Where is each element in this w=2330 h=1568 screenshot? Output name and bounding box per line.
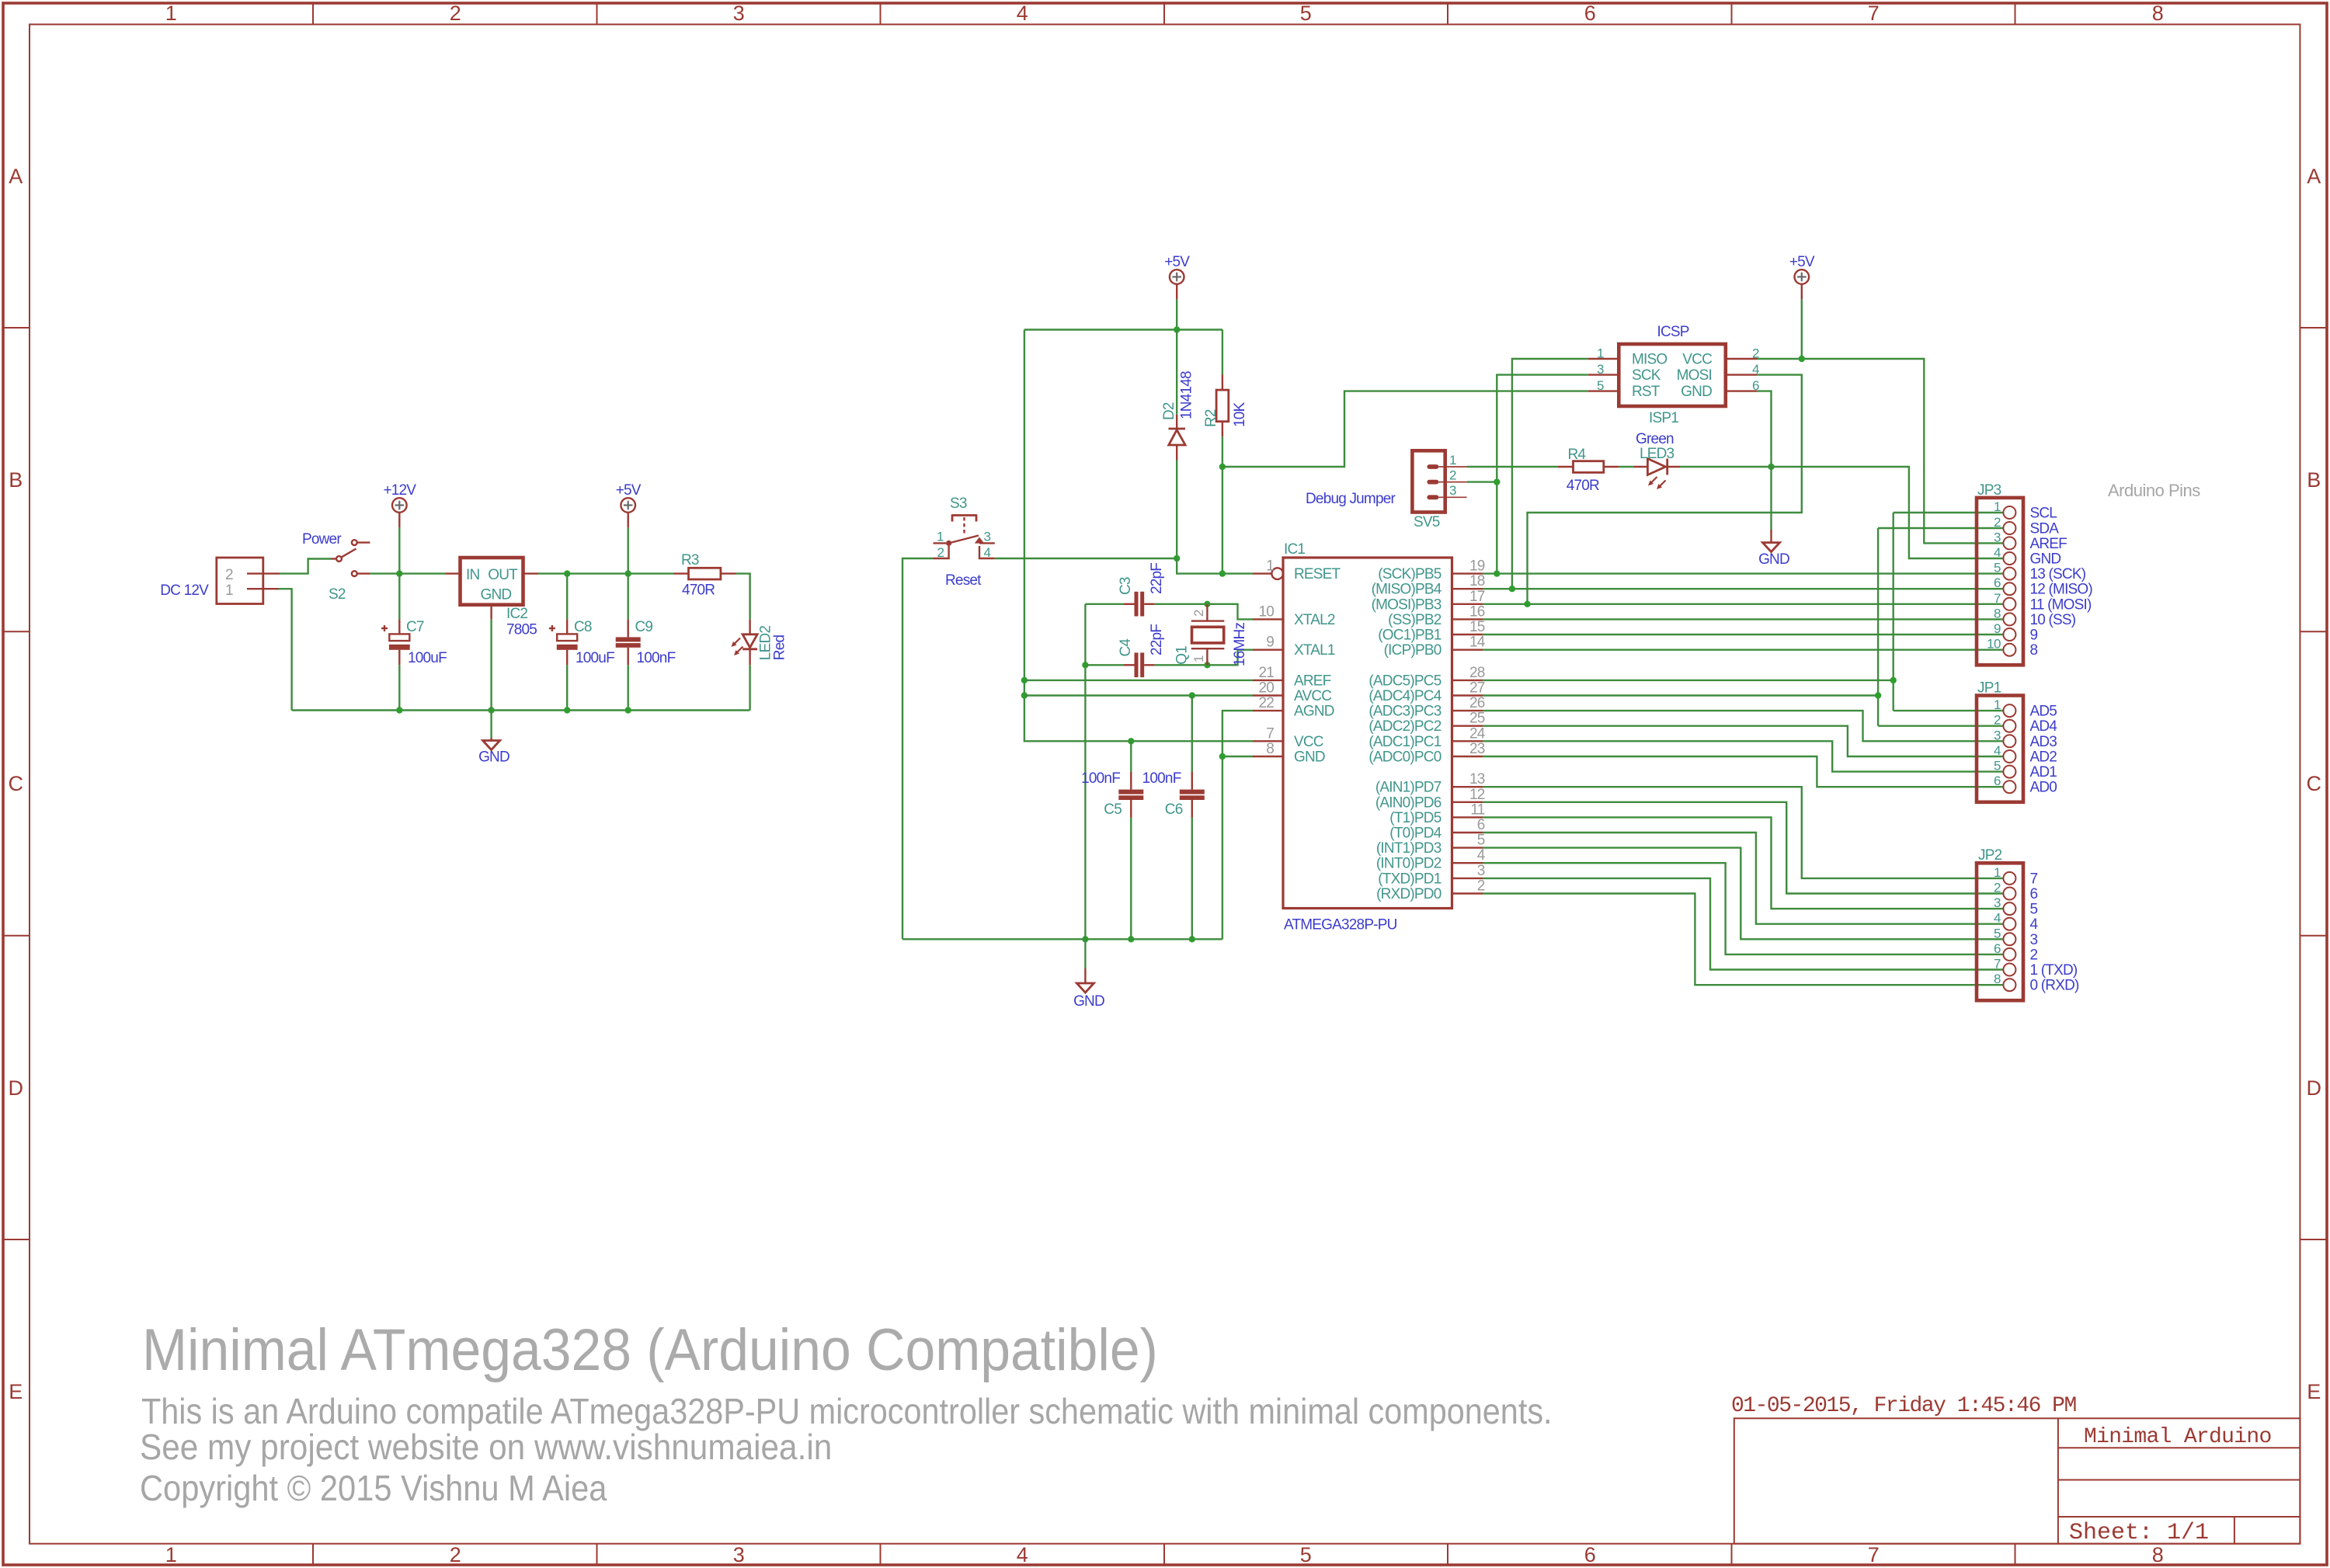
svg-text:22pF: 22pF (1149, 624, 1165, 655)
wire R2 bottom vertical (1222, 436, 1223, 573)
svg-text:(INT0)PD2: (INT0)PD2 (1376, 856, 1441, 872)
svg-text:10: 10 (1258, 603, 1274, 620)
header ISP1 (ICSP) (1588, 324, 1759, 426)
junction +5V/D2 (1174, 326, 1180, 332)
svg-text:JP3: JP3 (1977, 482, 2001, 499)
resistor R4 (1558, 447, 1619, 494)
svg-text:5: 5 (1994, 926, 2001, 940)
svg-text:E: E (2307, 1380, 2321, 1403)
IC1 (1253, 541, 1486, 933)
capacitor C3 (1118, 563, 1165, 617)
capacitor C4 (1118, 624, 1165, 677)
wire +5V stub (628, 527, 629, 573)
wire SV5 pin1 to R4 (1467, 466, 1558, 468)
svg-text:ISP1: ISP1 (1649, 410, 1678, 426)
junction PB4/MISO (1509, 586, 1515, 592)
wire PB4 net (pin18 to JP3-6) (1483, 588, 2003, 589)
svg-text:(ADC3)PC3: (ADC3)PC3 (1368, 704, 1441, 720)
svg-text:(RXD)PD0: (RXD)PD0 (1376, 886, 1441, 902)
svg-text:GND: GND (1681, 384, 1712, 400)
svg-text:GND: GND (481, 587, 512, 603)
svg-text:3: 3 (2030, 932, 2038, 948)
svg-text:C3: C3 (1118, 577, 1134, 595)
svg-text:Q1: Q1 (1174, 646, 1191, 665)
svg-text:2: 2 (1994, 515, 2001, 530)
junction rail C6 (1189, 936, 1195, 942)
svg-text:B: B (9, 468, 23, 492)
svg-text:LED3: LED3 (1640, 446, 1674, 462)
svg-text:100uF: 100uF (408, 650, 447, 666)
wire PC4 net (pin27 to JP3-2/JP1-2) (1483, 694, 1878, 696)
svg-text:22pF: 22pF (1149, 563, 1165, 594)
svg-text:7: 7 (1994, 957, 2001, 972)
svg-text:AD5: AD5 (2030, 704, 2057, 720)
svg-text:D2: D2 (1161, 402, 1177, 420)
svg-text:C4: C4 (1118, 638, 1134, 657)
svg-text:20: 20 (1258, 680, 1274, 697)
svg-text:(ADC0)PC0: (ADC0)PC0 (1368, 749, 1441, 766)
svg-text:2: 2 (1449, 468, 1456, 483)
svg-text:C: C (2307, 772, 2321, 795)
svg-text:10 (SS): 10 (SS) (2030, 612, 2076, 628)
svg-text:2: 2 (1994, 881, 2001, 895)
wire PD0 net (pin2 to JP2-8) (1483, 894, 2003, 986)
supply +5V (ICSP) (1789, 254, 1815, 299)
wire IC2 GND down (490, 619, 492, 710)
svg-text:(ADC2)PC2: (ADC2)PC2 (1368, 718, 1441, 735)
svg-text:S2: S2 (329, 586, 346, 603)
wire S2 pivot stub (331, 558, 336, 559)
wire S2 to IC2 IN (370, 572, 445, 574)
svg-text:This is an Arduino compatile A: This is an Arduino compatile ATmega328P-… (141, 1392, 1553, 1432)
svg-text:10K: 10K (1232, 402, 1248, 427)
junction R2/RST (1219, 464, 1226, 470)
svg-text:470R: 470R (1567, 478, 1599, 494)
TEXTS (140, 1317, 1553, 1508)
junction C5/VCC (1128, 738, 1134, 744)
svg-text:16MHz: 16MHz (1232, 623, 1248, 666)
wire PC3 net (pin26 to JP1-3) (1483, 711, 2003, 741)
svg-text:(MOSI)PB3: (MOSI)PB3 (1372, 596, 1441, 613)
wire crystal top jog to XTAL2 (1207, 604, 1253, 620)
svg-text:6: 6 (1584, 1543, 1596, 1566)
svg-text:Green: Green (1636, 431, 1674, 447)
ICSP (1306, 254, 2003, 604)
wire PC5 net (pin28 to JP3-1/JP1-1) (1483, 680, 1894, 681)
wire C8 bottom (566, 665, 568, 710)
svg-text:4: 4 (1994, 545, 2001, 560)
svg-text:27: 27 (1469, 680, 1485, 697)
header JP3 (1977, 482, 2092, 665)
svg-text:6: 6 (1584, 2, 1596, 25)
wire SV5 pin2 to SCK (1467, 481, 1497, 482)
svg-text:2: 2 (1477, 878, 1485, 895)
svg-text:5: 5 (1994, 561, 2001, 575)
svg-text:3: 3 (1449, 483, 1456, 498)
left pin names (1294, 566, 1341, 765)
svg-text:1: 1 (1994, 865, 2001, 880)
svg-text:3: 3 (1994, 530, 2001, 544)
wire C9 top (628, 574, 629, 620)
wire +5V long vertical to VCC (1024, 330, 1131, 742)
wire C3 left (1085, 603, 1124, 605)
svg-text:1: 1 (165, 1543, 177, 1566)
svg-text:14: 14 (1469, 635, 1486, 651)
svg-text:9: 9 (2030, 628, 2038, 644)
svg-text:Minimal Arduino: Minimal Arduino (2084, 1425, 2272, 1449)
wire PD6 net (pin12 to JP2-2) (1483, 802, 2003, 894)
svg-text:8: 8 (1266, 741, 1274, 757)
svg-text:Power: Power (302, 531, 342, 548)
svg-text:2: 2 (225, 567, 233, 583)
svg-text:470R: 470R (682, 582, 715, 599)
HEADERS (1483, 481, 2200, 1000)
ground GND (power) (478, 738, 509, 766)
svg-text:R2: R2 (1203, 409, 1219, 427)
wire PD7 net (pin13 to JP2-1) (1483, 787, 2003, 878)
svg-text:E: E (9, 1380, 23, 1403)
svg-text:1: 1 (1994, 499, 2001, 514)
svg-text:GND: GND (1758, 551, 1789, 568)
wire PB2 net (pin16 to JP3-8) (1483, 618, 2003, 620)
svg-text:5: 5 (1994, 759, 2001, 774)
wire DC12V pin2 to S2 pivot (280, 559, 331, 574)
svg-text:1: 1 (1191, 655, 1206, 662)
svg-text:2: 2 (450, 1543, 461, 1566)
LED LED3 Green (1634, 431, 1680, 489)
wire LED2 to rail (749, 665, 750, 710)
right pin stubs (1452, 572, 1483, 574)
svg-text:ICSP: ICSP (1657, 324, 1689, 340)
wire R2 top (1222, 330, 1223, 375)
svg-text:(T1)PD5: (T1)PD5 (1389, 810, 1441, 826)
svg-text:(ICP)PB0: (ICP)PB0 (1384, 642, 1441, 659)
svg-text:4: 4 (984, 545, 991, 560)
svg-text:3: 3 (1994, 728, 2001, 742)
capacitor C9 (616, 619, 676, 666)
regulator IC2 7805 (445, 558, 538, 638)
svg-text:+5V: +5V (1164, 254, 1190, 270)
svg-text:5: 5 (2030, 902, 2038, 918)
junction PC4 (1875, 692, 1881, 698)
svg-text:1: 1 (937, 530, 944, 544)
junction crystal pin1 (1204, 662, 1210, 668)
microcontroller IC1 ATMEGA328P-PU (1253, 541, 1486, 933)
svg-text:XTAL2: XTAL2 (1294, 612, 1335, 628)
wire S3 pin4 to D2 (995, 558, 1177, 559)
wire VCC row to IC pin7 (1131, 740, 1253, 742)
svg-text:3: 3 (1994, 895, 2001, 910)
svg-text:MOSI: MOSI (1677, 367, 1712, 384)
ground GND (ICSP) (1758, 530, 1789, 568)
capacitor C8 (549, 619, 614, 666)
wire ISP pin4 MOSI down (1528, 375, 1802, 604)
wire GND symbol stub (1770, 467, 1772, 530)
svg-text:GND: GND (478, 749, 509, 766)
wire PC0 net (pin23 to JP1-6) (1483, 756, 2003, 787)
svg-text:(TXD)PD1: (TXD)PD1 (1378, 871, 1441, 887)
LED LED2 Red (732, 619, 788, 665)
right pin names (1368, 566, 1441, 902)
wire C6 bottom (1191, 818, 1193, 939)
svg-text:100nF: 100nF (1142, 770, 1181, 787)
svg-text:RST: RST (1632, 384, 1661, 400)
wire C7 bottom (398, 665, 400, 710)
svg-text:7805: 7805 (506, 622, 537, 638)
svg-text:AGND: AGND (1294, 704, 1334, 720)
svg-text:JP1: JP1 (1977, 680, 2001, 697)
junction RESET/R2 (1219, 570, 1226, 576)
svg-text:(OC1)PB1: (OC1)PB1 (1378, 628, 1441, 644)
header JP2 (1977, 847, 2079, 1000)
svg-text:26: 26 (1469, 695, 1485, 711)
wire C8 top (566, 574, 568, 620)
svg-text:7: 7 (1994, 591, 2001, 606)
wire C3 right to crystal (1155, 603, 1208, 605)
wire PB3 net (pin17 to JP3-7) (1483, 603, 2003, 605)
svg-text:AD0: AD0 (2030, 780, 2057, 796)
svg-text:ATMEGA328P-PU: ATMEGA328P-PU (1284, 917, 1397, 933)
svg-text:1: 1 (1597, 346, 1604, 361)
svg-text:9: 9 (1266, 635, 1274, 651)
svg-text:AD1: AD1 (2030, 764, 2057, 781)
wire OUT to R3 (+5V rail) (538, 572, 674, 574)
junction crystal pin2 (1204, 601, 1210, 607)
wire S3 pin2 to ground (902, 558, 934, 939)
wire C9 bottom (628, 665, 629, 710)
svg-text:D: D (9, 1076, 23, 1100)
svg-text:8: 8 (1994, 972, 2001, 986)
wire C5 bottom (1130, 818, 1132, 939)
wire R3 to LED2 (736, 574, 750, 620)
svg-text:25: 25 (1469, 711, 1485, 727)
svg-text:17: 17 (1469, 589, 1485, 605)
svg-text:AREF: AREF (2030, 536, 2067, 552)
svg-text:5: 5 (1477, 833, 1485, 849)
capacitor C6 (1142, 770, 1205, 818)
supply +12V (383, 482, 416, 527)
svg-text:8: 8 (1994, 606, 2001, 621)
svg-text:IN: IN (466, 567, 479, 583)
svg-text:DC 12V: DC 12V (160, 582, 209, 599)
svg-text:S3: S3 (950, 495, 967, 512)
svg-text:RESET: RESET (1294, 566, 1341, 582)
svg-text:7: 7 (1266, 725, 1274, 742)
junction C9/+5V (625, 570, 631, 576)
svg-text:22: 22 (1258, 695, 1274, 711)
svg-text:1: 1 (1266, 558, 1274, 575)
wire C4 right to crystal (1155, 664, 1208, 666)
switch S3 (934, 495, 995, 589)
junction PB3/MOSI (1524, 601, 1530, 607)
svg-text:5: 5 (1300, 1543, 1312, 1566)
wire LED3 to GND junction (1680, 466, 1772, 468)
svg-text:2: 2 (1994, 713, 2001, 728)
XTAL (1081, 563, 1253, 940)
switch S2 (302, 531, 370, 603)
supply +5V (power) (616, 482, 642, 527)
svg-text:(T0)PD4: (T0)PD4 (1389, 826, 1441, 842)
svg-text:6: 6 (1477, 817, 1485, 833)
svg-text:GND: GND (1073, 993, 1104, 1010)
svg-text:AD2: AD2 (2030, 749, 2057, 766)
svg-text:11: 11 (1470, 801, 1484, 818)
svg-text:A: A (9, 165, 23, 188)
junction AVCC tap (1021, 692, 1028, 698)
svg-text:24: 24 (1469, 725, 1486, 742)
svg-text:C: C (9, 772, 23, 795)
svg-text:8: 8 (2152, 2, 2164, 25)
svg-text:6: 6 (2030, 886, 2038, 902)
svg-text:1: 1 (1449, 453, 1456, 468)
svg-text:C7: C7 (406, 619, 424, 635)
svg-text:4: 4 (2030, 916, 2039, 933)
wire GND to JP3 pin4 (1772, 467, 2004, 558)
svg-text:C8: C8 (574, 619, 592, 635)
svg-text:7: 7 (2030, 871, 2038, 887)
wire +5V top horizontal (1024, 329, 1222, 330)
svg-text:R3: R3 (681, 552, 699, 568)
POWER (160, 482, 788, 766)
wire mid ground rail (902, 938, 1222, 940)
svg-text:18: 18 (1469, 573, 1485, 589)
svg-text:2: 2 (1191, 610, 1206, 617)
svg-text:AD4: AD4 (2030, 718, 2058, 735)
svg-text:SCK: SCK (1632, 367, 1661, 384)
resistor R3 (674, 552, 736, 599)
svg-text:IC1: IC1 (1284, 541, 1305, 558)
svg-text:Debug Jumper: Debug Jumper (1306, 491, 1396, 507)
junction PB5/SCK (1494, 570, 1500, 576)
svg-text:D: D (2307, 1076, 2321, 1100)
junction rail IC2 (488, 707, 494, 713)
junction SV5/SCK (1494, 478, 1500, 485)
svg-text:100uF: 100uF (576, 650, 614, 666)
junction rail C5 (1128, 936, 1134, 942)
junction rail C7 (396, 707, 402, 713)
wire ISP pin6 GND down (1757, 391, 1772, 467)
svg-text:1: 1 (225, 582, 233, 599)
svg-text:21: 21 (1258, 665, 1274, 681)
junction AGND/GND8 (1219, 753, 1226, 760)
svg-text:6: 6 (1994, 774, 2001, 788)
svg-text:2: 2 (2030, 947, 2038, 963)
svg-text:SV5: SV5 (1414, 514, 1440, 530)
svg-text:16: 16 (1469, 603, 1485, 620)
svg-text:(AIN1)PD7: (AIN1)PD7 (1375, 780, 1441, 796)
diode D2 1N4148 (1161, 371, 1195, 460)
svg-text:3: 3 (1477, 863, 1485, 879)
svg-text:Red: Red (772, 635, 788, 661)
svg-text:AREF: AREF (1294, 673, 1331, 689)
wire DC12V pin1 return (278, 589, 291, 710)
wire PD4 net (pin6 to JP2-4) (1483, 833, 2003, 924)
wire IC GND pin8 (1222, 756, 1253, 757)
wire RST to ISP pin5 (1222, 391, 1588, 467)
svg-text:GND: GND (2030, 551, 2061, 568)
svg-text:(ADC5)PC5: (ADC5)PC5 (1368, 673, 1441, 689)
svg-text:28: 28 (1469, 665, 1485, 681)
svg-text:OUT: OUT (488, 567, 518, 583)
svg-text:C5: C5 (1104, 801, 1122, 818)
wire +5V stub (1801, 299, 1803, 359)
svg-text:13 (SCK): 13 (SCK) (2030, 566, 2086, 582)
svg-text:4: 4 (1017, 2, 1028, 25)
wire C5 top (1130, 741, 1132, 771)
svg-text:See my project website on www.: See my project website on www.vishnumaie… (140, 1427, 832, 1467)
wire R4 to LED3 (1619, 466, 1634, 468)
wire PD3 net (pin5 to JP2-5) (1483, 848, 2003, 940)
wire C6 top (1191, 696, 1193, 772)
svg-text:6: 6 (1994, 575, 2001, 590)
svg-text:Copyright © 2015 Vishnu M Aiea: Copyright © 2015 Vishnu M Aiea (140, 1469, 607, 1508)
svg-text:A: A (2307, 165, 2321, 188)
svg-text:1: 1 (165, 2, 177, 25)
svg-text:100nF: 100nF (637, 650, 676, 666)
svg-text:JP2: JP2 (1978, 847, 2002, 864)
svg-text:8: 8 (2030, 642, 2038, 659)
svg-text:4: 4 (1477, 847, 1486, 864)
svg-text:9: 9 (1994, 621, 2001, 636)
svg-text:4: 4 (1017, 1543, 1028, 1566)
right pin numbers (1469, 558, 1486, 895)
svg-text:C9: C9 (635, 619, 653, 635)
svg-text:AD3: AD3 (2030, 734, 2057, 750)
left pin numbers (1258, 558, 1274, 757)
svg-text:6: 6 (1994, 941, 2001, 956)
wire PC2 net (pin25 to JP1-4) (1483, 726, 2003, 756)
junction rail GND stub (1082, 936, 1088, 942)
svg-text:B: B (2307, 468, 2321, 492)
wire IC2 GND below rail (490, 711, 492, 739)
svg-text:5: 5 (1300, 2, 1312, 25)
wire PC1 net (pin24 to JP1-5) (1483, 741, 2003, 771)
svg-text:C6: C6 (1165, 801, 1183, 818)
junction rail C8 (564, 707, 570, 713)
left pin stubs (1253, 572, 1271, 574)
svg-text:8: 8 (2152, 1543, 2164, 1566)
svg-text:VCC: VCC (1294, 734, 1323, 750)
svg-text:5: 5 (1597, 378, 1604, 393)
svg-text:15: 15 (1469, 619, 1485, 635)
wire ISP pin3 SCK down (1497, 375, 1588, 574)
wire PB0 net (pin14 to JP3-10) (1483, 649, 2003, 651)
supply +5V (reset) (1164, 254, 1190, 299)
junction AREF tap (1021, 677, 1028, 683)
RESET (902, 254, 1588, 1010)
svg-text:01-05-2015, Friday 1:45:46 PM: 01-05-2015, Friday 1:45:46 PM (1731, 1394, 2076, 1418)
junction +12V/C7 (396, 570, 402, 576)
svg-text:(SCK)PB5: (SCK)PB5 (1378, 566, 1441, 582)
svg-text:(SS)PB2: (SS)PB2 (1388, 612, 1441, 628)
svg-text:23: 23 (1469, 741, 1485, 757)
svg-text:Arduino Pins: Arduino Pins (2108, 481, 2200, 500)
junction S3/D2 (1174, 555, 1180, 561)
wire GND stub below rail (1084, 939, 1086, 968)
svg-text:R4: R4 (1568, 447, 1587, 463)
wire power ground rail (292, 709, 750, 711)
svg-text:7: 7 (1868, 1543, 1880, 1566)
svg-text:GND: GND (1294, 749, 1325, 766)
svg-text:Minimal ATmega328 (Arduino Com: Minimal ATmega328 (Arduino Compatible) (142, 1317, 1158, 1382)
title block (1731, 1394, 2300, 1546)
svg-text:+12V: +12V (383, 482, 416, 499)
svg-text:3: 3 (1597, 362, 1604, 377)
svg-text:2: 2 (937, 545, 944, 560)
wire AGND to GND row (1222, 711, 1253, 939)
svg-text:Sheet: 1/1: Sheet: 1/1 (2069, 1520, 2209, 1546)
svg-text:+5V: +5V (1789, 254, 1815, 270)
